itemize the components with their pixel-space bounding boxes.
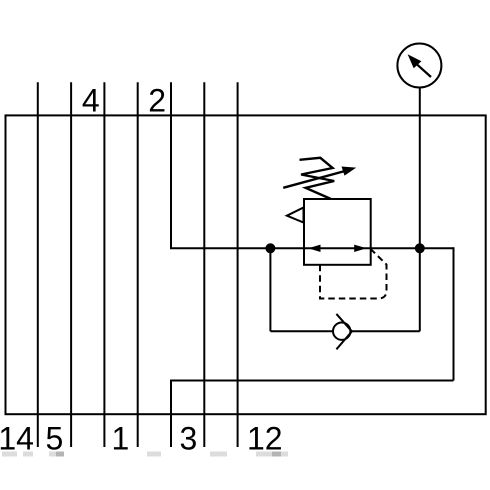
pilot line (dashed) from outlet to diaphragm xyxy=(320,249,387,298)
enclosure box xyxy=(6,115,486,414)
svg-text:2: 2 xyxy=(148,83,166,119)
check valve circle xyxy=(333,323,350,340)
regulator vent triangle xyxy=(287,208,304,223)
pressure gauge dial xyxy=(397,44,441,88)
svg-text:5: 5 xyxy=(46,420,64,456)
wire: regulator inlet horizontal run at y=248.3 xyxy=(170,247,454,249)
wire: flow path through regulator body xyxy=(304,247,371,249)
line 1 xyxy=(137,82,139,447)
wire: bypass left drop at x=270.4 xyxy=(269,248,271,331)
regulator adjustment arrow xyxy=(283,171,345,188)
line 14 xyxy=(37,82,39,447)
line 4 xyxy=(103,82,105,447)
regulator flow arrow left xyxy=(308,245,320,252)
line 2 upper segment (regulator inlet drop) xyxy=(170,82,172,248)
svg-text:14: 14 xyxy=(0,420,34,456)
check valve seat xyxy=(336,314,352,349)
line 12 xyxy=(237,82,239,447)
svg-text:3: 3 xyxy=(180,420,198,456)
line 2 lower segment (regulated outlet drop) xyxy=(170,380,172,448)
node: junction downstream at gauge tap xyxy=(415,243,425,253)
line 5 xyxy=(70,82,72,447)
regulator flow arrow right xyxy=(354,245,366,252)
svg-text:1: 1 xyxy=(112,420,130,456)
svg-text:12: 12 xyxy=(247,420,283,456)
regulator body xyxy=(304,199,371,265)
line 3 xyxy=(203,82,205,447)
wire: regulator outlet return run at y=380.5 xyxy=(171,380,454,382)
node: junction upstream of regulator bypass xyxy=(265,243,275,253)
pressure gauge needle xyxy=(417,64,431,77)
wire: bypass bottom run at y=331.2 xyxy=(270,330,419,332)
svg-text:4: 4 xyxy=(82,83,100,119)
artifact smudge row under labels xyxy=(2,452,288,457)
wire: bypass right rise at x=419.8 xyxy=(419,248,421,331)
pressure gauge stem xyxy=(419,87,421,248)
regulator spring xyxy=(300,158,335,199)
wire: regulator outlet down segment at x=453.5 xyxy=(453,247,455,380)
